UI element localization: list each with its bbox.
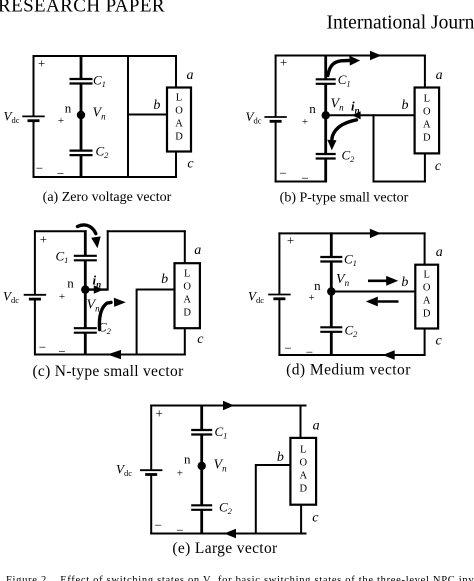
capacitor C1 (c) [74, 256, 97, 260]
wire phase-b branch (e) [255, 464, 257, 535]
svg-text:(b) P-type small vector: (b) P-type small vector [280, 191, 409, 206]
battery Vdc (c) [24, 295, 46, 299]
svg-text:Vdc: Vdc [246, 109, 262, 126]
svg-text:+: + [302, 116, 308, 128]
svg-text:+: + [156, 405, 163, 420]
wire neutral return vertical (b) [373, 114, 375, 182]
current arrow b right (d) [368, 276, 398, 286]
wire bottom rail left (b) [275, 181, 327, 183]
current flow arrow from C2 (c) [99, 298, 125, 330]
svg-text:A: A [299, 470, 307, 481]
wire capacitor branch upper (b) [324, 55, 327, 80]
svg-text:C2: C2 [345, 323, 359, 340]
svg-text:b: b [402, 98, 409, 113]
wire left rail upper (b) [275, 55, 277, 118]
svg-text:−: − [58, 344, 65, 359]
svg-text:C1: C1 [56, 249, 69, 266]
svg-text:A: A [423, 119, 431, 130]
svg-text:C2: C2 [96, 144, 110, 161]
svg-text:c: c [435, 333, 442, 348]
wire bottom rail (e) [150, 533, 306, 535]
battery Vdc (d) [268, 295, 290, 299]
svg-text:+: + [287, 232, 294, 247]
wire left rail upper (d) [278, 232, 280, 294]
svg-text:b: b [277, 450, 284, 465]
wire left rail upper (e) [150, 405, 152, 471]
current flow arrow into phase-a (c) [78, 225, 101, 248]
svg-text:Vn: Vn [331, 97, 345, 113]
svg-text:Vdc: Vdc [116, 462, 132, 479]
svg-text:Vdc: Vdc [4, 109, 20, 126]
svg-text:n: n [184, 452, 191, 467]
svg-text:Vdc: Vdc [248, 289, 264, 306]
svg-text:c: c [187, 157, 194, 172]
svg-text:n: n [314, 278, 321, 293]
svg-text:D: D [299, 483, 307, 494]
wire top rail left (c) [34, 230, 87, 232]
wire phase-a to load (e) [300, 405, 302, 439]
wire capacitor branch middle (c) [84, 260, 87, 328]
wire bottom rail (d) [278, 354, 425, 356]
current arrow in (b) [352, 111, 361, 119]
battery Vdc (e) [140, 470, 162, 474]
current arrow top rail (e) [223, 401, 234, 410]
svg-text:+: + [59, 291, 65, 303]
wire load to bottom (b) [424, 153, 426, 183]
current arrow in (c) [94, 285, 104, 293]
wire bottom rail right (b) [373, 181, 426, 183]
svg-text:Vn: Vn [336, 272, 350, 288]
svg-text:L: L [424, 93, 430, 104]
svg-text:C2: C2 [342, 148, 356, 165]
current arrow b left (d) [366, 297, 399, 307]
svg-text:−: − [57, 166, 64, 181]
wire left rail upper (a) [33, 55, 35, 117]
wire top rail right (c) [107, 230, 186, 232]
wire capacitor branch upper (a) [80, 55, 83, 79]
wire left rail upper (c) [34, 230, 36, 295]
wire load to bottom (a) [175, 151, 177, 178]
current flow arrow to C2 (b) [327, 120, 356, 150]
capacitor C1 (a) [70, 79, 93, 84]
capacitor C2 (c) [74, 328, 97, 333]
load box (e) [290, 438, 316, 505]
current arrow bottom rail (d) [383, 350, 395, 360]
svg-text:L: L [423, 270, 429, 281]
wire capacitor branch upper (c) [84, 230, 87, 256]
capacitor C2 (e) [191, 505, 212, 510]
svg-text:b: b [161, 272, 168, 287]
svg-text:+: + [40, 231, 47, 246]
svg-text:D: D [423, 309, 431, 320]
wire phase-b branch (a) [127, 55, 129, 178]
wire top rail (e) [150, 405, 306, 407]
svg-text:+: + [308, 292, 314, 304]
wire phase-b branch (c) [136, 289, 138, 356]
svg-text:Figure 2. Effect of switchin: Figure 2. Effect of switching states on … [6, 575, 474, 581]
wire top rail (b) [275, 55, 426, 57]
svg-text:n: n [67, 276, 74, 291]
capacitor C1 (e) [191, 430, 212, 435]
wire phase-a to load (c) [184, 230, 186, 263]
wire phase-a riser (c) [107, 230, 109, 290]
load box (c) [175, 263, 200, 328]
node n (d) [327, 287, 335, 295]
wire capacitor branch lower (b) [324, 159, 327, 183]
wire capacitor branch middle (d) [330, 262, 333, 328]
wire left rail lower (c) [34, 300, 36, 356]
wire capacitor branch upper (d) [330, 232, 333, 257]
svg-text:−: − [301, 171, 308, 186]
wire capacitor branch lower (c) [84, 333, 87, 356]
capacitor C1 (d) [320, 257, 342, 262]
wire left rail lower (d) [278, 299, 280, 356]
wire top rail (a) [33, 55, 178, 57]
svg-text:L: L [176, 93, 182, 104]
svg-text:L: L [184, 269, 190, 280]
svg-text:(d) Medium vector: (d) Medium vector [286, 362, 411, 379]
svg-text:O: O [183, 282, 191, 293]
load box (a) [167, 88, 191, 152]
svg-text:a: a [187, 68, 194, 83]
wire left rail lower (e) [150, 475, 152, 535]
svg-text:c: c [435, 159, 442, 174]
battery Vdc (a) [22, 116, 44, 120]
wire node to phase-a riser (c) [85, 288, 107, 290]
svg-text:n: n [65, 101, 72, 116]
svg-text:−: − [306, 345, 313, 360]
wire capacitor branch lower (d) [330, 332, 333, 356]
node n (e) [198, 462, 206, 470]
wire capacitor branch upper (e) [200, 405, 203, 431]
svg-text:c: c [312, 511, 319, 526]
wire left rail lower (a) [33, 121, 35, 178]
node n (b) [322, 111, 330, 119]
svg-text:(e) Large vector: (e) Large vector [172, 540, 278, 557]
svg-text:a: a [194, 243, 201, 258]
current arrow top rail (d) [370, 229, 381, 238]
wire phase-a to load (a) [175, 55, 177, 88]
svg-text:a: a [313, 418, 320, 433]
battery Vdc (b) [264, 117, 286, 121]
wire capacitor branch lower (a) [80, 155, 83, 178]
svg-text:Vn: Vn [93, 106, 107, 122]
current arrow bottom rail (e) [224, 529, 236, 538]
svg-text:D: D [175, 132, 183, 143]
svg-text:O: O [299, 457, 307, 468]
wire phase-a to load (d) [424, 232, 426, 265]
wire node to load (phase b) (b) [326, 114, 415, 116]
svg-text:L: L [300, 444, 306, 455]
svg-text:C2: C2 [219, 499, 233, 516]
wire capacitor branch middle (a) [80, 84, 83, 151]
wire phase-b to load (c) [137, 289, 175, 291]
svg-text:−: − [39, 339, 46, 354]
svg-text:O: O [423, 283, 431, 294]
current arrow bottom rail (c) [107, 350, 121, 359]
svg-text:A: A [175, 119, 183, 130]
svg-text:(c) N-type small vector: (c) N-type small vector [32, 363, 184, 380]
svg-text:D: D [183, 308, 191, 319]
current arrow top rail (b) [370, 51, 381, 60]
svg-text:Vdc: Vdc [3, 289, 19, 306]
wire left rail lower (b) [275, 122, 277, 183]
svg-text:c: c [197, 332, 204, 347]
svg-text:RESEARCH PAPER: RESEARCH PAPER [0, 0, 165, 17]
svg-text:b: b [153, 98, 160, 113]
wire capacitor branch middle (b) [324, 84, 327, 154]
svg-text:Vn: Vn [87, 298, 101, 314]
load box (d) [415, 265, 438, 329]
node n (c) [81, 285, 89, 293]
load box (b) [415, 88, 440, 154]
svg-text:+: + [38, 56, 45, 71]
wire bottom rail (a) [33, 176, 178, 178]
wire phase-b to load (a) [128, 114, 168, 116]
svg-text:A: A [423, 296, 431, 307]
svg-text:−: − [36, 160, 43, 175]
svg-text:−: − [176, 522, 183, 537]
node n (a) [77, 111, 85, 119]
svg-text:(a) Zero voltage vector: (a) Zero voltage vector [43, 190, 172, 205]
svg-text:D: D [423, 132, 431, 143]
wire phase-b to load (e) [256, 464, 291, 466]
svg-text:O: O [175, 106, 183, 117]
wire phase-a to load (b) [424, 55, 426, 89]
wire load to bottom (e) [300, 504, 302, 534]
svg-text:C1: C1 [338, 72, 351, 89]
wire load to bottom (d) [424, 328, 426, 356]
svg-text:a: a [436, 245, 443, 260]
capacitor C1 (b) [316, 79, 336, 84]
wire top rail (d) [278, 232, 425, 234]
current flow arrow via C1 (b) [328, 56, 360, 76]
svg-text:−: − [279, 165, 286, 180]
wire load to bottom (c) [184, 328, 186, 356]
svg-text:+: + [177, 467, 183, 479]
svg-text:A: A [183, 295, 191, 306]
svg-text:+: + [58, 115, 64, 127]
svg-text:C1: C1 [93, 73, 106, 90]
wire bottom rail (c) [34, 354, 186, 356]
capacitor C2 (d) [320, 327, 342, 332]
svg-text:−: − [155, 518, 162, 533]
svg-text:O: O [423, 106, 431, 117]
svg-text:−: − [284, 340, 291, 355]
capacitor C2 (b) [316, 154, 336, 159]
svg-text:International Journal of: International Journal of [327, 13, 474, 34]
wire capacitor branch middle (e) [200, 435, 203, 506]
wire node to load (phase b) (d) [331, 291, 415, 293]
svg-text:C1: C1 [215, 424, 228, 441]
svg-text:+: + [280, 55, 287, 70]
svg-text:a: a [436, 68, 443, 83]
wire capacitor branch lower (e) [200, 510, 203, 535]
svg-text:b: b [401, 275, 408, 290]
capacitor C2 (a) [70, 151, 93, 156]
svg-text:C1: C1 [344, 251, 357, 268]
svg-text:n: n [309, 101, 316, 116]
svg-text:Vn: Vn [214, 458, 228, 474]
